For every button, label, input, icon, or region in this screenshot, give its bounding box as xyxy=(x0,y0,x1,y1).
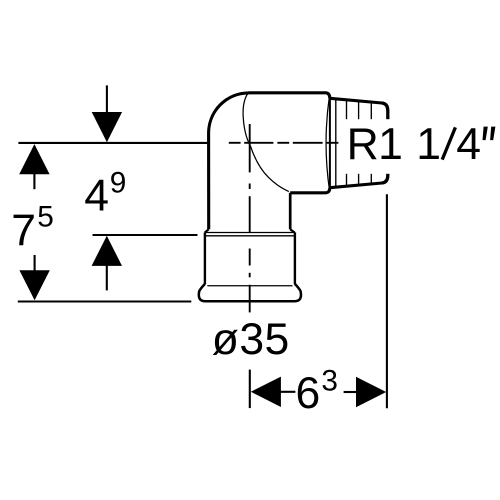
thread bottom edge xyxy=(330,183,382,188)
arrow right (6.3 dim) xyxy=(356,377,386,407)
elbow inner vertical edge xyxy=(289,193,292,230)
svg-text:3: 3 xyxy=(321,365,338,398)
extension line below socket center xyxy=(249,370,251,409)
white box behind thread label xyxy=(343,119,500,174)
thread crest line 3 xyxy=(370,102,372,184)
vertical barrel right edge lower xyxy=(290,229,294,232)
centerline vertical axis xyxy=(249,124,251,312)
dimension line top (y=143) xyxy=(18,142,207,144)
thread crest line 1 xyxy=(346,100,348,186)
thread start line xyxy=(335,99,337,187)
arrow down onto top line (4.9 dim) xyxy=(106,85,108,112)
collar right edge line xyxy=(329,98,331,188)
arrow down onto bottom line (7.5 dim) xyxy=(19,270,49,300)
svg-text:ø35: ø35 xyxy=(212,315,290,364)
thread end cap xyxy=(382,103,388,183)
dimension line middle (y=235) xyxy=(93,234,198,236)
svg-text:1: 1 xyxy=(378,120,403,169)
socket right wall xyxy=(294,233,296,285)
svg-text:4: 4 xyxy=(456,120,481,169)
bead shoulder line xyxy=(207,285,292,287)
fraction slash xyxy=(442,127,455,159)
elbow body bottom edge xyxy=(290,188,330,193)
svg-text:R: R xyxy=(347,120,379,169)
centerline horizontal axis xyxy=(229,142,339,144)
vertical barrel left flare xyxy=(205,229,209,232)
svg-text:9: 9 xyxy=(110,167,127,200)
socket rim top line xyxy=(205,232,296,234)
svg-text:6: 6 xyxy=(296,369,321,418)
press bead outline xyxy=(199,284,301,301)
svg-text:4: 4 xyxy=(84,171,109,220)
svg-text:1: 1 xyxy=(416,120,441,169)
elbow body top edge xyxy=(249,93,330,99)
thread top edge xyxy=(330,98,382,103)
elbow bend silhouette arc lower xyxy=(251,147,289,192)
elbow bend silhouette arc upper xyxy=(243,93,251,147)
elbow outer curve xyxy=(209,93,249,229)
arrow up onto middle line (4.9 dim) xyxy=(92,236,122,266)
collar end-face lens arc xyxy=(326,96,329,191)
socket left wall xyxy=(204,233,206,285)
inch double prime xyxy=(483,127,488,141)
svg-text:5: 5 xyxy=(37,201,54,234)
dimension line bottom (y=301.5) xyxy=(18,300,192,302)
socket rim bottom line xyxy=(205,235,296,237)
arrow left (6.3 dim) xyxy=(251,377,281,407)
thread crest line 2 xyxy=(358,101,360,185)
extension line below thread end xyxy=(386,194,388,408)
svg-text:7: 7 xyxy=(11,207,36,256)
arrow up under top line (7.5 dim) xyxy=(19,144,49,174)
